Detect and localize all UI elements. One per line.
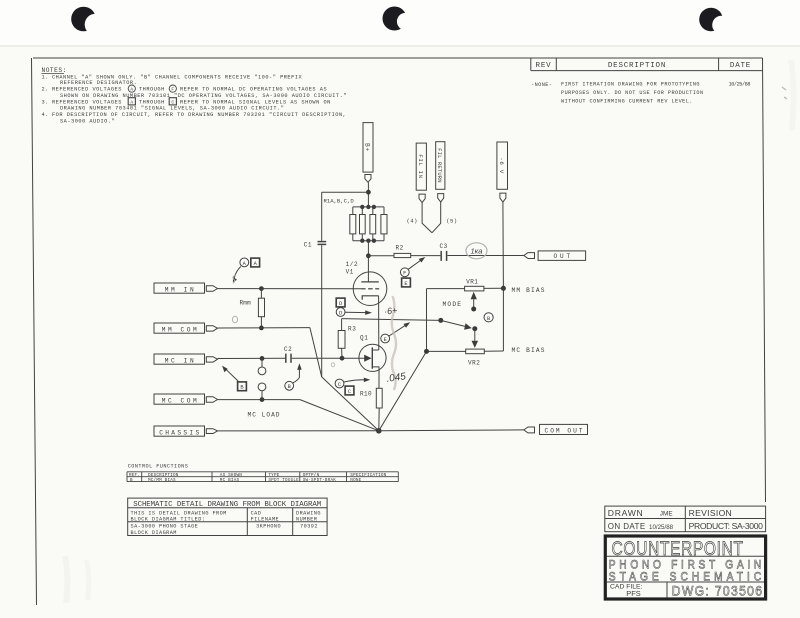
wire C3 to OUT	[448, 255, 524, 257]
svg-text:A: A	[130, 87, 133, 93]
svg-text:NONE: NONE	[350, 478, 361, 483]
svg-text:THROUGH: THROUGH	[139, 99, 165, 105]
pencil margin ticks	[782, 87, 787, 99]
pin COM OUT	[524, 427, 535, 433]
svg-text:SW-SPDT-BRAK: SW-SPDT-BRAK	[303, 478, 337, 483]
capacitor C2	[286, 354, 291, 363]
wire MC COM diagonal to common node	[300, 400, 379, 431]
svg-text:(5): (5)	[446, 218, 457, 225]
junction dots R1 bottom bus	[360, 239, 376, 243]
node marker C circle with C box (source)	[335, 379, 354, 395]
NOTES heading	[42, 67, 67, 74]
node MC load tap	[260, 356, 265, 361]
node common ground junction	[376, 428, 382, 434]
svg-text:E: E	[384, 337, 387, 343]
connector CHASSIS	[154, 426, 218, 436]
resistor R10	[376, 388, 382, 431]
svg-text:A: A	[130, 99, 133, 105]
connector FIL IN	[416, 143, 426, 203]
svg-text:D: D	[339, 301, 342, 307]
svg-text:SCHEMATIC DETAIL DRAWING FROM: SCHEMATIC DETAIL DRAWING FROM BLOCK DIAG…	[133, 501, 321, 509]
leader arrow from A to MM IN wire	[233, 267, 241, 283]
svg-text:Q1: Q1	[360, 334, 368, 341]
svg-text:PFS: PFS	[626, 589, 640, 598]
svg-text:R3: R3	[348, 326, 356, 333]
svg-text:THIS IS DETAIL DRAWING FROM: THIS IS DETAIL DRAWING FROM	[131, 510, 227, 516]
capacitor C1	[318, 242, 327, 245]
connector FIL RETURN	[436, 142, 445, 202]
connector MC IN	[154, 354, 218, 364]
node VR2 left tap	[424, 349, 429, 354]
connector MM COM	[154, 323, 218, 333]
svg-text:SA-3000 AUDIO.": SA-3000 AUDIO."	[60, 118, 115, 124]
wire C1 lower lead down to common fan	[321, 245, 323, 377]
svg-text:REFERENCE DESIGNATOR.: REFERENCE DESIGNATOR.	[60, 80, 137, 86]
resistor R2	[394, 253, 411, 257]
wire C2 to Q1 gate	[292, 357, 365, 359]
Q1 drain lead	[372, 349, 379, 351]
svg-text:JME: JME	[660, 510, 673, 517]
wire filament V right	[432, 202, 441, 233]
svg-text:-6 V: -6 V	[498, 157, 505, 174]
REV table header text	[536, 62, 752, 70]
svg-text:OUT: OUT	[554, 253, 571, 260]
V1 plate	[361, 281, 379, 283]
connector -6 V	[497, 142, 508, 202]
svg-text:Rmm: Rmm	[240, 300, 252, 307]
svg-text:REFERENCED VOLTAGES: REFERENCED VOLTAGES	[52, 87, 122, 93]
control functions header row	[129, 473, 387, 478]
svg-text:VR1: VR1	[466, 279, 478, 286]
pin OUT	[524, 253, 535, 259]
resistor network R1A-R1D bottom bus	[353, 240, 384, 242]
resistor R1A	[350, 207, 356, 241]
svg-text:DWG: 703506: DWG: 703506	[672, 583, 762, 599]
svg-text:·6+: ·6+	[384, 305, 398, 316]
node marker F circle over E box (plate)	[400, 268, 410, 287]
label CAD FILE: PFS	[610, 584, 643, 598]
svg-text:B: B	[130, 478, 133, 483]
svg-text:CAD: CAD	[251, 510, 262, 516]
node mode switch MC throw	[472, 326, 477, 331]
wire R2 to C3	[411, 255, 441, 257]
potentiometer VR1	[465, 286, 484, 291]
pencil mark o near Q1 gate	[331, 363, 334, 367]
svg-text:FIL IN: FIL IN	[417, 154, 424, 178]
wire VR2 tap diagonal to common node	[379, 351, 427, 430]
svg-text:NOTES:: NOTES:	[42, 67, 67, 74]
svg-text:1/2: 1/2	[346, 261, 359, 268]
leader arrow from B box to MC IN wire	[222, 366, 238, 382]
wire CHASSIS to common node	[218, 430, 379, 432]
svg-text:R1A,B,C,D: R1A,B,C,D	[324, 197, 355, 204]
V1 grid (dashed)	[361, 288, 379, 290]
svg-text:E: E	[404, 281, 407, 287]
svg-text:PURPOSES ONLY. DO NOT USE FOR: PURPOSES ONLY. DO NOT USE FOR PRODUCTION	[561, 90, 704, 96]
node MM BIAS	[501, 286, 506, 291]
svg-text:70392: 70392	[300, 523, 318, 529]
leader arrow from F to plate wire	[408, 257, 425, 269]
punch hole left	[71, 7, 106, 36]
svg-text:10/25/88: 10/25/88	[729, 82, 751, 88]
title block thick box	[605, 536, 765, 599]
svg-text:REFER TO NORMAL DC OPERATING V: REFER TO NORMAL DC OPERATING VOLTAGES AS	[180, 87, 327, 93]
punch hole middle	[383, 7, 415, 31]
svg-text:THROUGH: THROUGH	[139, 87, 165, 93]
wire -6V MM BIAS to MC BIAS	[502, 288, 504, 351]
V1 cathode	[362, 296, 378, 300]
potentiometer VR2	[466, 349, 485, 354]
node marker A circle with A box	[240, 258, 260, 267]
node marker D box over D circle (cathode)	[336, 298, 345, 316]
wire V1 cathode to Q1 drain	[378, 296, 380, 350]
MC load terminal lower	[258, 383, 266, 400]
node VR1 wiper contact	[471, 307, 476, 312]
svg-text:REVISION: REVISION	[689, 508, 732, 518]
REV table row: -NONE- / first iteration note / 10/25/88	[531, 82, 751, 105]
svg-text:2.: 2.	[42, 87, 49, 93]
wire MM IN line to V1 grid	[218, 288, 362, 290]
svg-text:C: C	[338, 382, 341, 388]
note 2 circled A	[128, 85, 135, 93]
leader arrow from C to Q1 source wire	[344, 378, 370, 383]
svg-text:REV: REV	[536, 62, 552, 70]
svg-text:D: D	[339, 310, 342, 316]
svg-text:ON DATE: ON DATE	[608, 522, 646, 531]
wire R1 bus to V1 plate	[367, 241, 369, 282]
wire VR1 right lead to MM BIAS node	[484, 287, 504, 289]
svg-text:FIRST ITERATION DRAWING FOR PR: FIRST ITERATION DRAWING FOR PROTOTYPING	[561, 82, 700, 88]
svg-text:C3: C3	[440, 243, 448, 250]
svg-text:F: F	[171, 87, 174, 93]
node marker B circle (mode)	[484, 313, 493, 322]
svg-text:3KPHONO: 3KPHONO	[256, 523, 281, 529]
resistor Rmm	[258, 289, 264, 328]
svg-text:R2: R2	[396, 245, 404, 252]
svg-text:CONTROL FUNCTIONS: CONTROL FUNCTIONS	[128, 463, 189, 469]
Q1 channel bar	[371, 347, 373, 368]
svg-text:C: C	[348, 389, 351, 395]
pencil mark 0 near MM COM	[232, 316, 237, 322]
wire bias network left vertical	[426, 289, 428, 352]
svg-text:B+: B+	[364, 143, 371, 152]
node plate / R2 tee	[366, 253, 371, 258]
svg-text:NUMBER: NUMBER	[296, 517, 317, 523]
svg-text:MC LOAD: MC LOAD	[248, 412, 280, 419]
node marker B circle (after C2)	[285, 381, 294, 390]
svg-text:MC BIAS: MC BIAS	[220, 478, 240, 483]
svg-text:VR2: VR2	[468, 359, 480, 366]
connector B+	[363, 123, 373, 183]
wire MM COM drop to common fan	[310, 328, 379, 431]
svg-text:4.: 4.	[42, 112, 49, 118]
svg-text:1ка: 1ка	[471, 247, 483, 256]
pencil squiggle through Q1 column	[392, 296, 396, 390]
node mode switch pole	[438, 318, 443, 323]
svg-text:BLOCK DIAGRAM: BLOCK DIAGRAM	[131, 530, 177, 536]
capacitor C3	[441, 251, 446, 261]
resistor R1C	[370, 207, 376, 241]
svg-text:3.: 3.	[42, 99, 49, 105]
node MC load bottom	[260, 397, 265, 402]
svg-text:V1: V1	[346, 269, 354, 276]
junction dots R1 top bus	[360, 205, 376, 209]
svg-text:(4): (4)	[407, 218, 418, 225]
svg-text:-NONE-: -NONE-	[531, 82, 552, 88]
title block drawn/revision row frame	[605, 506, 766, 532]
wire VR1 left lead	[427, 288, 465, 290]
Q1 source lead	[372, 367, 379, 388]
control functions data row	[130, 478, 362, 483]
schematic detail table cells	[131, 510, 321, 535]
connector MC COM	[154, 394, 218, 404]
tube V1 envelope	[353, 272, 387, 306]
node marker B box (MC IN)	[238, 382, 247, 391]
wire MC IN to C2	[218, 357, 286, 359]
svg-text:DATE: DATE	[730, 62, 751, 70]
schematic detail table frame	[128, 498, 327, 535]
svg-text:FILENAME: FILENAME	[251, 517, 280, 523]
wire C1 tap to B+ line	[322, 191, 369, 193]
NOTES list	[42, 74, 347, 124]
svg-text:BLOCK DIAGRAM TITLED:: BLOCK DIAGRAM TITLED:	[131, 517, 206, 523]
MC load terminal upper	[258, 358, 266, 374]
wire MC COM line	[218, 399, 301, 401]
resistor R3	[338, 319, 345, 359]
connector COM OUT	[540, 424, 588, 434]
resistor network R1A-R1D top bus	[353, 206, 384, 208]
svg-text:COUNTERPOINT: COUNTERPOINT	[612, 537, 744, 559]
REV table	[531, 58, 763, 71]
pencil circled 1k near C3	[466, 243, 487, 259]
mode switch blade with arrowhead	[441, 320, 472, 329]
transistor Q1 envelope	[359, 344, 386, 371]
note 2 circled F	[169, 85, 176, 93]
wire filament V left	[422, 203, 432, 233]
node B+ / C1 tap junction	[366, 190, 371, 195]
wire common node to COM OUT	[379, 429, 524, 432]
connector OUT	[538, 251, 586, 261]
note 3 boxed A	[128, 98, 135, 106]
control functions table grid	[127, 472, 398, 482]
node marker E circle (cathode line)	[381, 334, 390, 343]
VR1 wiper arrow	[471, 292, 477, 309]
wire R3 top to mode switch pole	[342, 319, 441, 321]
svg-text:1.: 1.	[42, 74, 49, 80]
connector MM IN	[154, 283, 218, 293]
scan smudge right margin	[788, 60, 796, 130]
pencil mark 5 near MM IN	[233, 275, 236, 284]
svg-text:PRODUCT: SA-3000: PRODUCT: SA-3000	[689, 521, 764, 531]
svg-text:REFER TO NORMAL SIGNAL LEVELS: REFER TO NORMAL SIGNAL LEVELS AS SHOWN O…	[180, 99, 331, 105]
wire MM COM line	[218, 327, 310, 329]
note 3 boxed C	[169, 98, 176, 106]
label 1/2 V1	[346, 261, 359, 276]
svg-text:SA-3000 PHONO STAGE: SA-3000 PHONO STAGE	[131, 523, 199, 529]
svg-text:DRAWING: DRAWING	[296, 510, 321, 516]
svg-text:SPDT TOGGLE: SPDT TOGGLE	[268, 478, 299, 483]
svg-text:FIL RETURN: FIL RETURN	[436, 148, 442, 182]
svg-text:SHOWN ON DRAWING NUMBER 703101: SHOWN ON DRAWING NUMBER 703101 "DC OPERA…	[60, 93, 347, 99]
node Rmm bottom	[259, 326, 264, 331]
svg-text:DRAWING NUMBER 703401 "SIGNAL: DRAWING NUMBER 703401 "SIGNAL LEVELS, SA…	[60, 106, 284, 112]
node R3 bottom tee	[340, 356, 345, 361]
wire B+ pin to R1 bus	[367, 182, 369, 207]
leader arrow from D to cathode wire	[345, 310, 372, 315]
wire VR2 right lead to -6V line	[484, 350, 503, 352]
svg-text:10/25/88: 10/25/88	[649, 524, 674, 531]
svg-text:R10: R10	[360, 391, 372, 398]
scan smudge bottom left	[62, 556, 91, 603]
title block row texts	[608, 508, 763, 531]
svg-text:C1: C1	[304, 242, 312, 249]
svg-text:MODE: MODE	[443, 301, 462, 308]
svg-text:MC/MM BIAS: MC/MM BIAS	[148, 478, 176, 483]
punch hole right	[699, 8, 731, 35]
node Rmm top	[259, 286, 264, 291]
svg-text:F: F	[403, 271, 406, 277]
title block inner lines	[607, 556, 764, 598]
svg-text:FOR DESCRIPTION OF CIRCUIT, RE: FOR DESCRIPTION OF CIRCUIT, REFER TO DRA…	[52, 112, 346, 118]
leader arrow from B circle up to MC IN wire	[293, 363, 302, 383]
svg-text:DRAWN: DRAWN	[608, 508, 644, 518]
svg-text:WITHOUT CONFIRMING CURRENT REV: WITHOUT CONFIRMING CURRENT REV LEVEL.	[561, 99, 693, 105]
wire VR2 left lead	[427, 350, 466, 352]
VR2 wiper arrow	[472, 329, 479, 348]
wire C1 upper lead	[321, 192, 323, 241]
resistor R1B	[360, 207, 366, 241]
wire -6V to MM BIAS node	[502, 202, 505, 288]
Q1 gate arrowhead	[364, 355, 371, 362]
wire plate node to R2	[368, 255, 394, 257]
svg-text:DESCRIPTION: DESCRIPTION	[608, 62, 666, 70]
resistor R1D	[381, 207, 387, 241]
svg-text:C: C	[171, 99, 174, 105]
svg-text:REFERENCED VOLTAGES: REFERENCED VOLTAGES	[52, 99, 122, 105]
svg-text:C2: C2	[284, 346, 292, 353]
leader arrow from E to bias wire	[389, 322, 410, 336]
